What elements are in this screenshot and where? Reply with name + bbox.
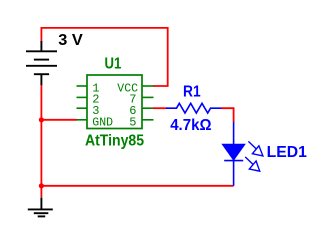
svg-text:GND: GND — [92, 116, 113, 130]
svg-text:LED1: LED1 — [267, 144, 307, 161]
svg-text:U1: U1 — [105, 56, 122, 73]
U1 pin 1 stub — [77, 85, 88, 87]
wire battery positive to top rail to U1 VCC — [41, 28, 167, 86]
svg-text:3 V: 3 V — [58, 32, 83, 49]
resistor R1 — [166, 103, 222, 113]
U1 VCC pin stub — [142, 85, 154, 87]
U1 GND pin stub — [77, 119, 88, 121]
wire left rail (battery- down to ground) — [40, 85, 42, 197]
svg-text:5: 5 — [129, 116, 136, 130]
svg-text:AtTiny85: AtTiny85 — [85, 132, 144, 149]
svg-text:R1: R1 — [183, 83, 201, 100]
ground — [28, 197, 53, 216]
U1 pin 7 stub — [142, 96, 154, 98]
U1 pin 3 stub — [77, 107, 88, 109]
LED LED1 diode — [223, 122, 244, 186]
battery V1 — [26, 41, 57, 86]
U1 pin 2 stub — [77, 96, 88, 98]
U1 pin 5 stub — [142, 119, 154, 121]
wire R1 to LED anode — [222, 108, 234, 122]
LED light emission arrow 1 — [248, 141, 263, 156]
wire U1 GND pin to left rail — [41, 119, 77, 121]
LED light emission arrow 2 — [245, 157, 260, 171]
svg-text:4.7kΩ: 4.7kΩ — [170, 117, 211, 134]
wire bottom rail (LED cathode to left rail) — [41, 185, 233, 187]
U1 pin 6 stub — [142, 107, 154, 109]
junction dot at bottom rail — [39, 183, 44, 188]
op-amp U1 body (ATtiny85 IC) — [87, 75, 142, 129]
junction dot at GND pin wire — [39, 117, 44, 122]
wire U1 pin 6 to R1 — [153, 107, 167, 109]
